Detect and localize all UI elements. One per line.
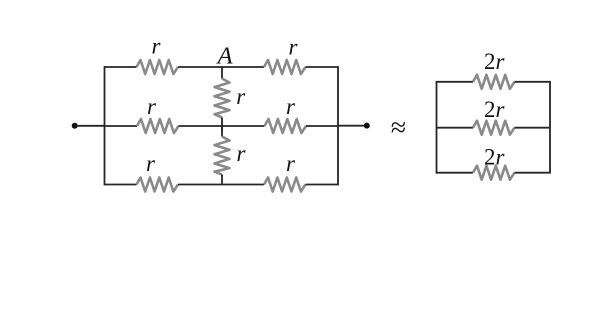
- resistor r vertical upper: [215, 79, 230, 118]
- wire right-circuit top rail left segment: [437, 81, 474, 83]
- wire middle rail middle segment: [179, 125, 265, 127]
- wire left terminal to left rail: [77, 125, 105, 127]
- wire right rail: [337, 66, 339, 185]
- resistor r vertical lower: [215, 137, 230, 175]
- wire bottom rail left segment: [105, 184, 137, 186]
- wire middle rail left segment: [105, 125, 138, 127]
- svg-text:A: A: [216, 43, 234, 70]
- svg-text:r: r: [237, 141, 247, 166]
- resistor r middle-right: [265, 119, 307, 133]
- wire right-circuit middle rail left segment: [437, 127, 474, 129]
- wire top rail left segment: [105, 66, 137, 68]
- svg-text:r: r: [236, 84, 246, 109]
- wire vertical upper lead to middle rail: [221, 118, 223, 132]
- wire top rail middle segment: [178, 66, 264, 68]
- wire right rail to right terminal: [338, 125, 365, 127]
- resistor r top-right: [264, 60, 306, 74]
- wire vertical lower lead to bottom rail: [221, 175, 223, 185]
- right terminal dot: [364, 123, 370, 129]
- wire bottom rail right segment: [306, 184, 339, 186]
- svg-text:r: r: [286, 94, 296, 119]
- svg-text:r: r: [152, 34, 162, 59]
- resistor 2r middle: [473, 121, 515, 135]
- wire middle rail right segment: [306, 125, 338, 127]
- wire right-circuit bottom rail right segment: [515, 172, 551, 174]
- wire right-circuit right rail: [549, 81, 551, 174]
- svg-text:2r: 2r: [484, 97, 506, 122]
- wire bottom rail middle segment: [178, 184, 264, 186]
- svg-text:r: r: [147, 94, 157, 119]
- resistor r middle-left: [137, 119, 179, 133]
- wire right-circuit left rail: [436, 81, 438, 174]
- svg-text:r: r: [286, 151, 296, 176]
- wire right-circuit bottom rail left segment: [437, 172, 474, 174]
- wire left rail: [104, 66, 106, 185]
- resistor r top-left: [137, 60, 179, 74]
- resistor r bottom-right: [264, 178, 306, 192]
- wire top rail right segment: [306, 66, 339, 68]
- svg-text:≈: ≈: [391, 113, 406, 144]
- wire vertical lower lead from middle rail: [221, 126, 223, 137]
- svg-text:2r: 2r: [484, 49, 506, 74]
- wire right-circuit top rail right segment: [515, 81, 551, 83]
- wire right-circuit middle rail right segment: [515, 127, 551, 129]
- svg-text:2r: 2r: [484, 145, 506, 170]
- wire node A lead: [221, 67, 223, 79]
- resistor 2r top: [473, 75, 515, 89]
- resistor 2r bottom: [473, 166, 515, 180]
- svg-text:r: r: [146, 151, 156, 176]
- svg-text:r: r: [289, 35, 299, 60]
- resistor r bottom-left: [137, 178, 179, 192]
- left terminal dot: [72, 123, 78, 129]
